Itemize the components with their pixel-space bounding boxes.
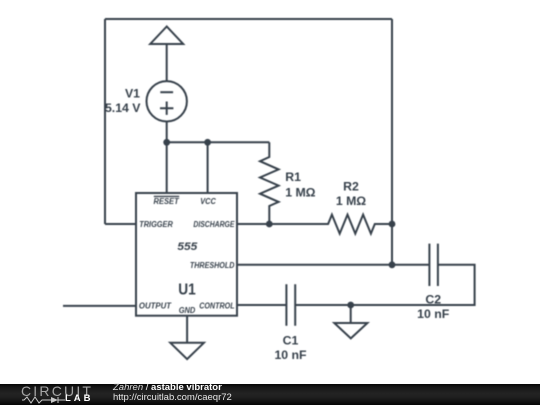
- svg-text:OUTPUT: OUTPUT: [139, 300, 172, 310]
- svg-text:5.14 V: 5.14 V: [105, 101, 141, 115]
- resistor R1: [260, 142, 279, 224]
- svg-text:1 MΩ: 1 MΩ: [285, 185, 315, 199]
- wire control lead: [237, 304, 286, 306]
- capacitor C1: [286, 284, 295, 325]
- footer title line: [113, 383, 222, 393]
- V1 plus sign: [160, 102, 173, 115]
- wire left rail: [104, 19, 106, 224]
- ground GND1: [170, 343, 204, 359]
- wire right rail: [391, 19, 393, 265]
- resistor R2: [269, 215, 392, 234]
- wire c2 right: [295, 265, 474, 305]
- svg-text:C1: C1: [283, 333, 299, 347]
- pin overline RESET: [154, 195, 179, 197]
- IC U1 555 body: [136, 193, 237, 316]
- svg-text:GND: GND: [179, 305, 196, 315]
- wire ic gnd stub: [186, 316, 188, 343]
- wire vcc row: [167, 141, 270, 143]
- svg-text:V1: V1: [125, 87, 140, 101]
- wire top rail: [105, 18, 392, 20]
- svg-text:555: 555: [177, 241, 198, 253]
- svg-text:1 MΩ: 1 MΩ: [336, 194, 366, 208]
- svg-text:U1: U1: [178, 281, 196, 298]
- CircuitLab logo text LAB: [65, 394, 94, 404]
- CircuitLab logo text CIRCUIT: [21, 384, 93, 398]
- power flag arrow: [150, 27, 183, 81]
- wire discharge lead: [237, 223, 269, 225]
- wire vcc stub: [207, 142, 209, 193]
- node junction R2-right rail: [389, 221, 396, 228]
- node junction control-gnd: [347, 302, 354, 309]
- node junction vcc: [204, 139, 211, 146]
- svg-text:CONTROL: CONTROL: [199, 300, 234, 310]
- node junction threshold: [389, 261, 396, 268]
- wire V1 bottom: [166, 122, 168, 143]
- wire output lead: [63, 305, 136, 307]
- svg-text:THRESHOLD: THRESHOLD: [190, 260, 235, 270]
- wire reset stub: [166, 142, 168, 193]
- svg-text:DISCHARGE: DISCHARGE: [193, 219, 234, 229]
- node junction V1-reset: [163, 139, 170, 146]
- wire threshold lead: [237, 264, 429, 266]
- V1 minus sign: [160, 91, 173, 93]
- footer watermark bar: [0, 384, 540, 405]
- svg-text:R2: R2: [343, 179, 359, 193]
- node junction discharge-R1: [266, 221, 273, 228]
- svg-text:R1: R1: [285, 170, 301, 184]
- svg-text:10 nF: 10 nF: [417, 307, 450, 321]
- svg-text:RESET: RESET: [154, 196, 180, 206]
- svg-text:10 nF: 10 nF: [274, 348, 307, 362]
- wire ground2 stub: [350, 305, 352, 323]
- svg-text:VCC: VCC: [200, 196, 216, 206]
- capacitor C2: [429, 244, 438, 286]
- svg-text:TRIGGER: TRIGGER: [139, 219, 173, 229]
- svg-text:C2: C2: [425, 292, 441, 306]
- CircuitLab logo symbol (resistor + diode): [22, 396, 65, 404]
- voltage source V1: [147, 81, 187, 121]
- wire trigger lead: [105, 223, 136, 225]
- ground GND2: [334, 323, 367, 338]
- footer url line: [113, 393, 232, 403]
